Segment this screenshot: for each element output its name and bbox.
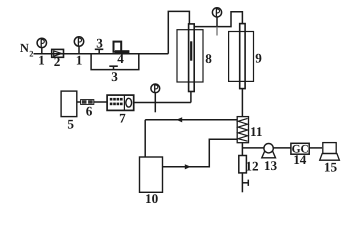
svg-text:7: 7 — [119, 111, 126, 126]
reactor 8 tube — [189, 24, 195, 92]
thermocouple 3 (on main line) — [95, 35, 104, 53]
arrow on outlet line — [185, 164, 191, 169]
reactor 9 tube — [240, 24, 245, 89]
filter 6 — [81, 100, 94, 119]
thermocouple 3 (on bypass) — [109, 66, 118, 84]
gauge 1 (pressure gauge on N2 line) — [37, 38, 46, 67]
svg-text:8: 8 — [205, 51, 212, 66]
reactor 8 (furnace shell) — [177, 30, 203, 82]
arrow on return line — [176, 117, 182, 122]
blower 13 — [262, 144, 278, 174]
svg-text:10: 10 — [145, 191, 159, 206]
wire pump 7 to reactor 8 bottom — [134, 102, 191, 104]
svg-text:11: 11 — [250, 124, 262, 139]
catalyst bed in reactor 8 — [190, 41, 192, 60]
wire main feed line — [34, 53, 169, 55]
wire reactor 8 bottom connection — [190, 92, 192, 103]
wire GC to computer — [309, 147, 322, 149]
wire blower to GC — [273, 147, 291, 149]
water tank 10 — [140, 157, 163, 192]
svg-text:2: 2 — [29, 48, 33, 58]
wire tank 10 outlet to condenser — [163, 139, 238, 167]
feed tank 5 — [61, 91, 77, 117]
svg-text:15: 15 — [324, 160, 338, 175]
svg-text:12: 12 — [245, 158, 259, 173]
svg-text:14: 14 — [293, 152, 307, 167]
wire condenser outlet — [241, 143, 243, 156]
condenser coil 11 — [237, 117, 262, 143]
svg-text:3: 3 — [111, 69, 118, 84]
valve 2 (pressure regulating valve) — [52, 49, 64, 69]
computer 15 — [320, 143, 340, 175]
gauge 1 (second pressure gauge) — [74, 37, 83, 68]
wire filter 6 to pump 7 — [94, 101, 107, 103]
pump 7 — [107, 95, 134, 126]
svg-text:3: 3 — [96, 35, 103, 50]
wire branch to blower 13 — [242, 147, 264, 149]
reactor 9 (shell) — [229, 32, 254, 82]
svg-text:N: N — [20, 41, 29, 55]
gauge 1 (top pressure gauge) — [212, 8, 221, 36]
wire riser to tank 10 — [144, 120, 146, 157]
wire cooling water return line — [145, 119, 237, 121]
svg-text:9: 9 — [255, 51, 262, 66]
wire bypass loop — [91, 54, 139, 70]
svg-text:1: 1 — [38, 52, 45, 67]
svg-text:5: 5 — [67, 117, 74, 132]
svg-text:6: 6 — [86, 103, 93, 118]
wire riser to reactor 8 — [168, 11, 189, 53]
drain line below separator 12 — [242, 173, 248, 192]
svg-text:2: 2 — [54, 54, 61, 69]
wire interconnect reactor 8 top to reactor 9 top — [194, 12, 242, 27]
separator 12 — [239, 156, 247, 173]
svg-text:4: 4 — [117, 51, 124, 66]
wire tank 5 to filter 6 — [77, 101, 81, 103]
gas chromatograph GC 14 — [291, 143, 309, 167]
svg-text:1: 1 — [76, 52, 83, 67]
mass flow controller 4 — [114, 42, 130, 67]
svg-text:13: 13 — [264, 158, 278, 173]
wire reactor 9 bottom to condenser — [241, 89, 243, 117]
gauge (pressure gauge on pump line) — [151, 84, 160, 112]
node N2 source label — [20, 41, 34, 58]
